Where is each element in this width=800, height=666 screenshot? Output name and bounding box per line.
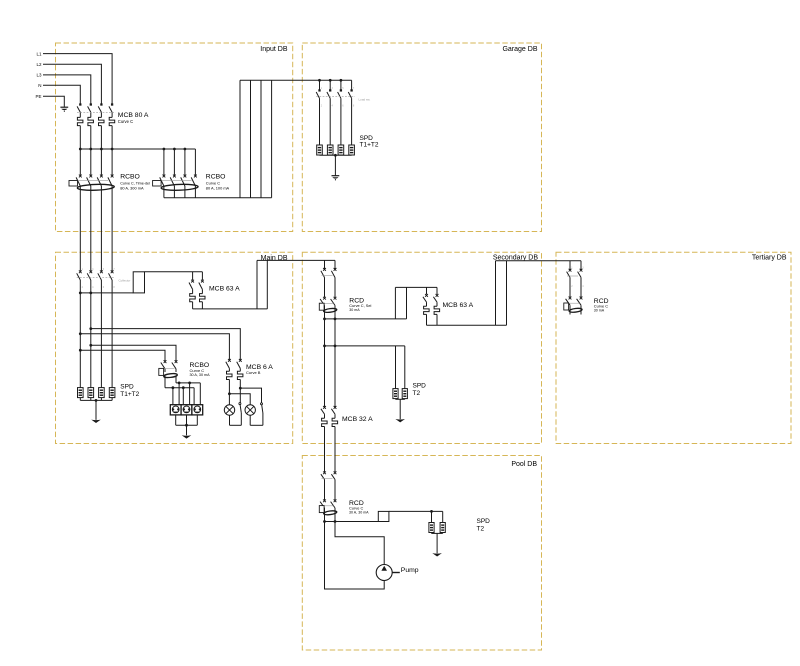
junction <box>79 292 82 295</box>
label RCD (tertiary) <box>594 298 609 305</box>
disconnector switch (main, 4-pole) <box>77 270 114 280</box>
wire collector to MCB 63 A <box>145 272 203 280</box>
SPD T1+T2 (garage, 4 modules) <box>317 145 355 155</box>
ground earth (garage) <box>332 176 340 181</box>
wire RCD output bus (pool) <box>325 521 379 523</box>
RCBO U2 (4-pole) <box>153 149 199 198</box>
svg-text:Collector: Collector <box>119 278 131 282</box>
wire L1 feed <box>43 54 112 105</box>
junction <box>334 318 337 321</box>
wire riser bus to Garage <box>240 80 272 197</box>
svg-text:L2: L2 <box>36 62 42 67</box>
pin 3 (garage switch) <box>332 87 334 90</box>
distribution board frame Garage DB <box>302 43 541 232</box>
socket outlet X3 <box>192 405 203 415</box>
wire collector to SPD (pool) <box>389 511 443 522</box>
label Curve C, Sel <box>349 303 371 308</box>
node PE <box>35 94 41 99</box>
SPD T2 (pool, 2 modules) <box>429 523 445 533</box>
svg-text:Input DB: Input DB <box>260 46 288 53</box>
wire RCBO out N <box>175 376 177 383</box>
label Curve C (main RCBO) <box>190 368 205 373</box>
pin 1 (tertiary switch) <box>571 267 573 270</box>
svg-text:PE: PE <box>35 94 41 99</box>
svg-text:Curve B: Curve B <box>246 370 261 375</box>
label Curve B <box>246 370 261 375</box>
junction <box>79 349 82 352</box>
pin 3 (main switch) <box>92 268 94 271</box>
junction <box>182 386 185 389</box>
pin 1 (garage switch) <box>321 87 323 90</box>
svg-text:Load sw.: Load sw. <box>359 98 371 102</box>
node L1 <box>36 51 42 56</box>
svg-text:MCB 63 A: MCB 63 A <box>443 302 474 309</box>
junction <box>95 399 98 402</box>
wire branch to switch 2 <box>240 388 261 403</box>
svg-text:T1+T2: T1+T2 <box>360 142 379 149</box>
RCBO (main, sockets) <box>159 360 178 378</box>
wire socket bus upper <box>176 382 200 384</box>
switch S2 <box>261 403 263 426</box>
label RCBO (input 2) <box>206 174 226 181</box>
label Garage DB <box>502 46 537 53</box>
label Load sw. (garage) <box>359 98 371 102</box>
label 30 A, 30 mA <box>190 373 211 377</box>
junction <box>111 148 114 151</box>
junction <box>340 79 343 82</box>
disconnector switch (tertiary) <box>567 269 583 297</box>
svg-text:SPD: SPD <box>120 383 134 390</box>
wire lamp 2 return <box>250 415 263 425</box>
socket outlet X2 <box>181 405 192 415</box>
breaker MCB 63 A (main) <box>189 280 205 309</box>
wire poles to collector <box>80 292 133 294</box>
junction <box>334 520 337 523</box>
junction <box>188 382 191 385</box>
svg-text:L3: L3 <box>36 73 42 78</box>
label Curve C (pool) <box>349 506 363 511</box>
svg-text:Garage DB: Garage DB <box>502 46 537 53</box>
label MCB 32 A <box>342 416 373 423</box>
svg-text:MCB 32 A: MCB 32 A <box>342 416 373 423</box>
label SPD (pool) <box>477 518 491 525</box>
pin 2 (main switch) <box>82 286 84 289</box>
socket outlet X1 <box>170 405 181 415</box>
pin 7 (garage switch) <box>353 87 355 90</box>
wire lamp 1 return <box>230 415 242 425</box>
pin 5 (main switch) <box>103 268 105 271</box>
junction <box>334 154 337 157</box>
SPD T1+T2 (main, 4 modules) <box>78 388 115 398</box>
distribution board frame Tertiary DB <box>556 252 791 443</box>
junction <box>100 148 103 151</box>
switch S1 <box>239 403 241 426</box>
pin 4 (main switch) <box>92 286 94 289</box>
wire branch to lamp 2 <box>229 394 250 405</box>
label SPD (garage) <box>360 135 374 142</box>
wire MCB6 L to lamp 1 <box>228 380 230 405</box>
wire SPD earth (secondary) <box>396 399 405 420</box>
label Pump <box>401 567 419 574</box>
pin 5 (garage switch) <box>342 87 344 90</box>
label T1+T2 (garage) <box>360 142 379 149</box>
label 30 A, 30 mA (pool) <box>349 511 369 515</box>
wire SPD earth bus (garage) <box>320 155 352 175</box>
wire SPD earth bus (main) <box>80 398 112 420</box>
breaker MCB 32 A <box>321 406 338 444</box>
label SPD (main) <box>120 383 134 390</box>
wire RCD output bus (secondary) <box>325 318 407 320</box>
junction <box>329 79 332 82</box>
svg-text:Curve C: Curve C <box>190 368 205 373</box>
pin 4 (tertiary switch) <box>582 285 584 288</box>
label Main DB <box>261 255 288 262</box>
junction <box>334 345 337 348</box>
svg-text:Tertiary DB: Tertiary DB <box>752 254 787 261</box>
svg-text:Pump: Pump <box>401 567 419 574</box>
label Secondary DB <box>493 254 538 261</box>
svg-text:L1: L1 <box>36 51 42 56</box>
svg-text:MCB 80 A: MCB 80 A <box>118 112 149 119</box>
junction <box>323 318 326 321</box>
junction <box>89 292 92 295</box>
pin 4 (garage switch) <box>332 104 334 107</box>
label Input DB <box>260 46 288 53</box>
junction <box>185 424 188 427</box>
label Pool DB <box>511 461 537 468</box>
disconnector switch (garage, 4-pole) <box>316 80 355 145</box>
label MCB 6 A <box>246 364 273 371</box>
junction <box>172 386 175 389</box>
busbar collector (pool) <box>378 511 389 521</box>
junction <box>323 520 326 523</box>
label Curve C (tertiary) <box>594 304 608 309</box>
label 30 mA (tertiary) <box>594 309 605 313</box>
wire RCBO out L <box>164 376 166 388</box>
junction <box>228 392 231 395</box>
distribution board frame Input DB <box>56 43 293 232</box>
pin 8 (garage switch) <box>353 104 355 107</box>
label Collector <box>119 278 131 282</box>
ground PE earth <box>60 107 68 112</box>
junction <box>323 345 326 348</box>
label 80 A, 300 mA <box>120 185 144 190</box>
wire socket bus lower <box>165 387 194 389</box>
pin 6 (main switch) <box>103 286 105 289</box>
svg-text:SPD: SPD <box>477 518 491 525</box>
svg-text:80 A, 100 mA: 80 A, 100 mA <box>206 185 230 190</box>
junction <box>89 148 92 151</box>
ground earth (main SPD) <box>91 420 101 423</box>
pin 3 (tertiary switch) <box>571 285 573 288</box>
label 80 A, 100 mA <box>206 185 230 190</box>
pin 7 (main switch) <box>113 268 115 271</box>
lamp E1 <box>224 405 234 415</box>
svg-text:RCBO: RCBO <box>120 174 140 181</box>
wire MCB 63 A output to Tertiary DB <box>427 261 582 326</box>
SPD T2 (secondary, 2 modules) <box>393 389 408 399</box>
RCD (pool) <box>319 499 337 521</box>
wire tap to MCB 6 A pole 2 <box>91 329 241 361</box>
label RCBO (input 1) <box>120 174 140 181</box>
label 30 mA (secondary RCD) <box>349 308 360 312</box>
motor pump M1 <box>376 565 400 581</box>
label MCB 80 A <box>118 112 149 119</box>
svg-text:30 mA: 30 mA <box>594 309 605 313</box>
label SPD (secondary) <box>413 383 427 390</box>
label Tertiary DB <box>752 254 787 261</box>
node L2 <box>36 62 42 67</box>
wire PE feed <box>43 96 64 107</box>
wire socket drops <box>173 383 200 405</box>
label RCBO (main) <box>190 362 210 369</box>
pin 1 (main switch) <box>82 268 84 271</box>
wire socket earth bus <box>176 415 198 436</box>
label RCD (pool) <box>349 500 364 507</box>
pin 2 (garage switch) <box>321 104 323 107</box>
wire Input DB to Main DB (4 cond.) <box>80 232 112 272</box>
junction <box>184 148 187 151</box>
wire RCBO2 output bus <box>164 197 272 199</box>
breaker MCB 63 A (secondary) <box>423 294 440 325</box>
wire MCB 63 A output to Secondary DB <box>193 260 335 309</box>
wire tap to RCBO pole 1 <box>80 350 165 362</box>
label Curve C, Time-del <box>120 181 150 185</box>
lamp E2 <box>245 405 255 415</box>
svg-text:30 mA: 30 mA <box>349 308 360 312</box>
wire pump return <box>325 522 385 590</box>
wire SPD earth (pool) <box>432 533 443 554</box>
wire N feed <box>43 85 80 104</box>
wire tap to SPD T2 (secondary) <box>325 346 405 389</box>
distribution board frame Pool DB <box>302 456 541 651</box>
RCBO U1 (4-pole, time-delayed) <box>69 149 114 232</box>
svg-text:Pool DB: Pool DB <box>511 461 537 468</box>
svg-text:SPD: SPD <box>413 383 427 390</box>
junction <box>178 382 181 385</box>
breaker MCB 80 A (4-pole) <box>77 103 116 149</box>
ground earth (pool SPD) <box>432 553 442 556</box>
label RCD (secondary) <box>349 297 364 304</box>
pin 6 (garage switch) <box>342 104 344 107</box>
svg-text:30 A, 30 mA: 30 A, 30 mA <box>349 511 369 515</box>
wire feed to Garage DB <box>240 79 352 81</box>
junction <box>430 510 433 513</box>
junction <box>89 344 92 347</box>
busbar Collector (main) <box>133 272 144 293</box>
svg-text:T2: T2 <box>477 526 485 533</box>
RCD (tertiary) <box>564 297 583 315</box>
junction <box>163 148 166 151</box>
ground earth (secondary SPD) <box>395 419 405 422</box>
junction <box>318 79 321 82</box>
wire tap to MCB 6 A pole 1 <box>80 334 229 361</box>
wire MCB6 N to switch 1 <box>239 380 241 403</box>
label MCB 63 A (main) <box>209 285 240 292</box>
wire Secondary to Pool DB <box>325 444 336 473</box>
svg-text:T2: T2 <box>413 390 421 397</box>
wire L2 feed <box>43 64 101 104</box>
disconnector switch (secondary) <box>321 268 337 297</box>
breaker MCB 6 A <box>226 359 243 380</box>
node L3 <box>36 73 42 78</box>
junction <box>79 332 82 335</box>
svg-text:T1+T2: T1+T2 <box>120 391 139 398</box>
svg-text:30 A, 30 mA: 30 A, 30 mA <box>190 373 211 377</box>
wire tap to RCBO pole 2 <box>91 345 176 361</box>
wire main vertical conductors <box>80 280 112 388</box>
junction <box>173 148 176 151</box>
ground earth (sockets) <box>182 435 192 438</box>
pin 8 (main switch) <box>113 286 115 289</box>
label T2 (secondary) <box>413 390 421 397</box>
pin 2 (tertiary switch) <box>582 267 584 270</box>
junction <box>79 148 82 151</box>
svg-text:N: N <box>38 83 41 88</box>
label T2 (pool) <box>477 526 485 533</box>
wire L3 feed <box>43 75 91 104</box>
svg-text:Curve C: Curve C <box>118 119 133 124</box>
label Curve C (MCB 80 A) <box>118 119 133 124</box>
junction <box>89 327 92 330</box>
wire RCD to MCB 32 A <box>325 319 336 407</box>
disconnector switch (pool) <box>321 471 337 500</box>
svg-text:MCB 63 A: MCB 63 A <box>209 285 240 292</box>
wire RCD to pump feed <box>335 522 384 565</box>
wire bus after MCB 80 A <box>80 148 195 150</box>
label MCB 63 A (secondary) <box>443 302 474 309</box>
distribution board frame Secondary DB <box>302 252 541 443</box>
RCD (secondary) <box>319 297 337 319</box>
distribution board frame Main DB <box>56 252 293 443</box>
wire riser to MCB 63 A (secondary) <box>395 287 437 319</box>
label Curve C (RCBO 2) <box>206 180 220 185</box>
junction <box>239 387 242 390</box>
node N <box>38 83 41 88</box>
label T1+T2 (main) <box>120 391 139 398</box>
svg-text:80 A, 300 mA: 80 A, 300 mA <box>120 185 144 190</box>
